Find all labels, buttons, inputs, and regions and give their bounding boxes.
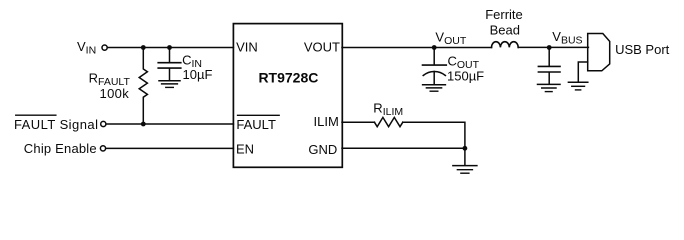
svg-text:Ferrite: Ferrite [485, 7, 523, 22]
node junction VOUT/COUT [432, 45, 437, 50]
node junction RFAULT/FAULT [141, 122, 146, 127]
wire ILIM to RILIM [342, 121, 374, 123]
inductor ferrite bead [492, 42, 519, 48]
svg-text:GND: GND [308, 142, 337, 157]
capacitor CIN [158, 48, 181, 81]
wire RILIM to GND node [403, 122, 465, 148]
overline FAULT pin label [238, 114, 280, 116]
svg-text:100k: 100k [100, 86, 130, 101]
svg-text:RT9728C: RT9728C [258, 70, 318, 86]
wire FAULT signal to IC pin FAULT [106, 123, 233, 125]
terminal Chip Enable [100, 146, 105, 151]
ground (COUT) [423, 85, 446, 92]
svg-text:VIN: VIN [236, 39, 258, 54]
resistor RILIM [374, 117, 402, 126]
svg-text:ILIM: ILIM [314, 114, 339, 129]
ground (ILIM/GND) [453, 166, 477, 174]
svg-text:150µF: 150µF [447, 69, 484, 84]
wire bead to USB port [518, 46, 588, 48]
svg-text:10µF: 10µF [183, 67, 213, 82]
IC U1 RT9728C [233, 24, 342, 168]
terminal FAULT signal [101, 121, 106, 126]
terminal VIN [102, 45, 107, 50]
svg-text:VOUT: VOUT [435, 29, 466, 47]
svg-text:VOUT: VOUT [304, 39, 340, 54]
node junction VIN/CIN [167, 45, 172, 50]
node junction VIN/RFAULT [141, 45, 146, 50]
svg-text:FAULT: FAULT [236, 117, 276, 132]
wire down to ground [464, 148, 466, 165]
wire VIN to IC pin VIN [108, 47, 234, 49]
ground (VBUS cap) [538, 84, 561, 91]
svg-text:VIN: VIN [77, 39, 96, 57]
svg-text:VBUS: VBUS [552, 29, 582, 47]
ground (CIN) [159, 81, 180, 88]
svg-text:Bead: Bead [490, 23, 520, 38]
capacitor COUT [423, 48, 447, 85]
svg-text:EN: EN [236, 142, 254, 157]
resistor RFAULT [139, 48, 147, 125]
wire VOUT rail [342, 47, 492, 49]
ground (USB) [568, 82, 587, 90]
svg-text:FAULT Signal: FAULT Signal [14, 117, 98, 132]
overline FAULT Signal [16, 114, 56, 116]
svg-text:Chip Enable: Chip Enable [24, 141, 97, 156]
wire USB shield to ground [578, 62, 587, 81]
USB port connector body [588, 34, 610, 71]
node junction ILIM/GND [463, 146, 468, 151]
node junction VBUS cap [547, 45, 552, 50]
capacitor C3 (VBUS bypass) [538, 48, 560, 84]
svg-text:RILIM: RILIM [373, 100, 403, 118]
wire GND pin to ground node [342, 147, 465, 149]
wire Chip Enable to IC pin EN [106, 147, 233, 149]
svg-text:USB Port: USB Port [615, 42, 670, 57]
